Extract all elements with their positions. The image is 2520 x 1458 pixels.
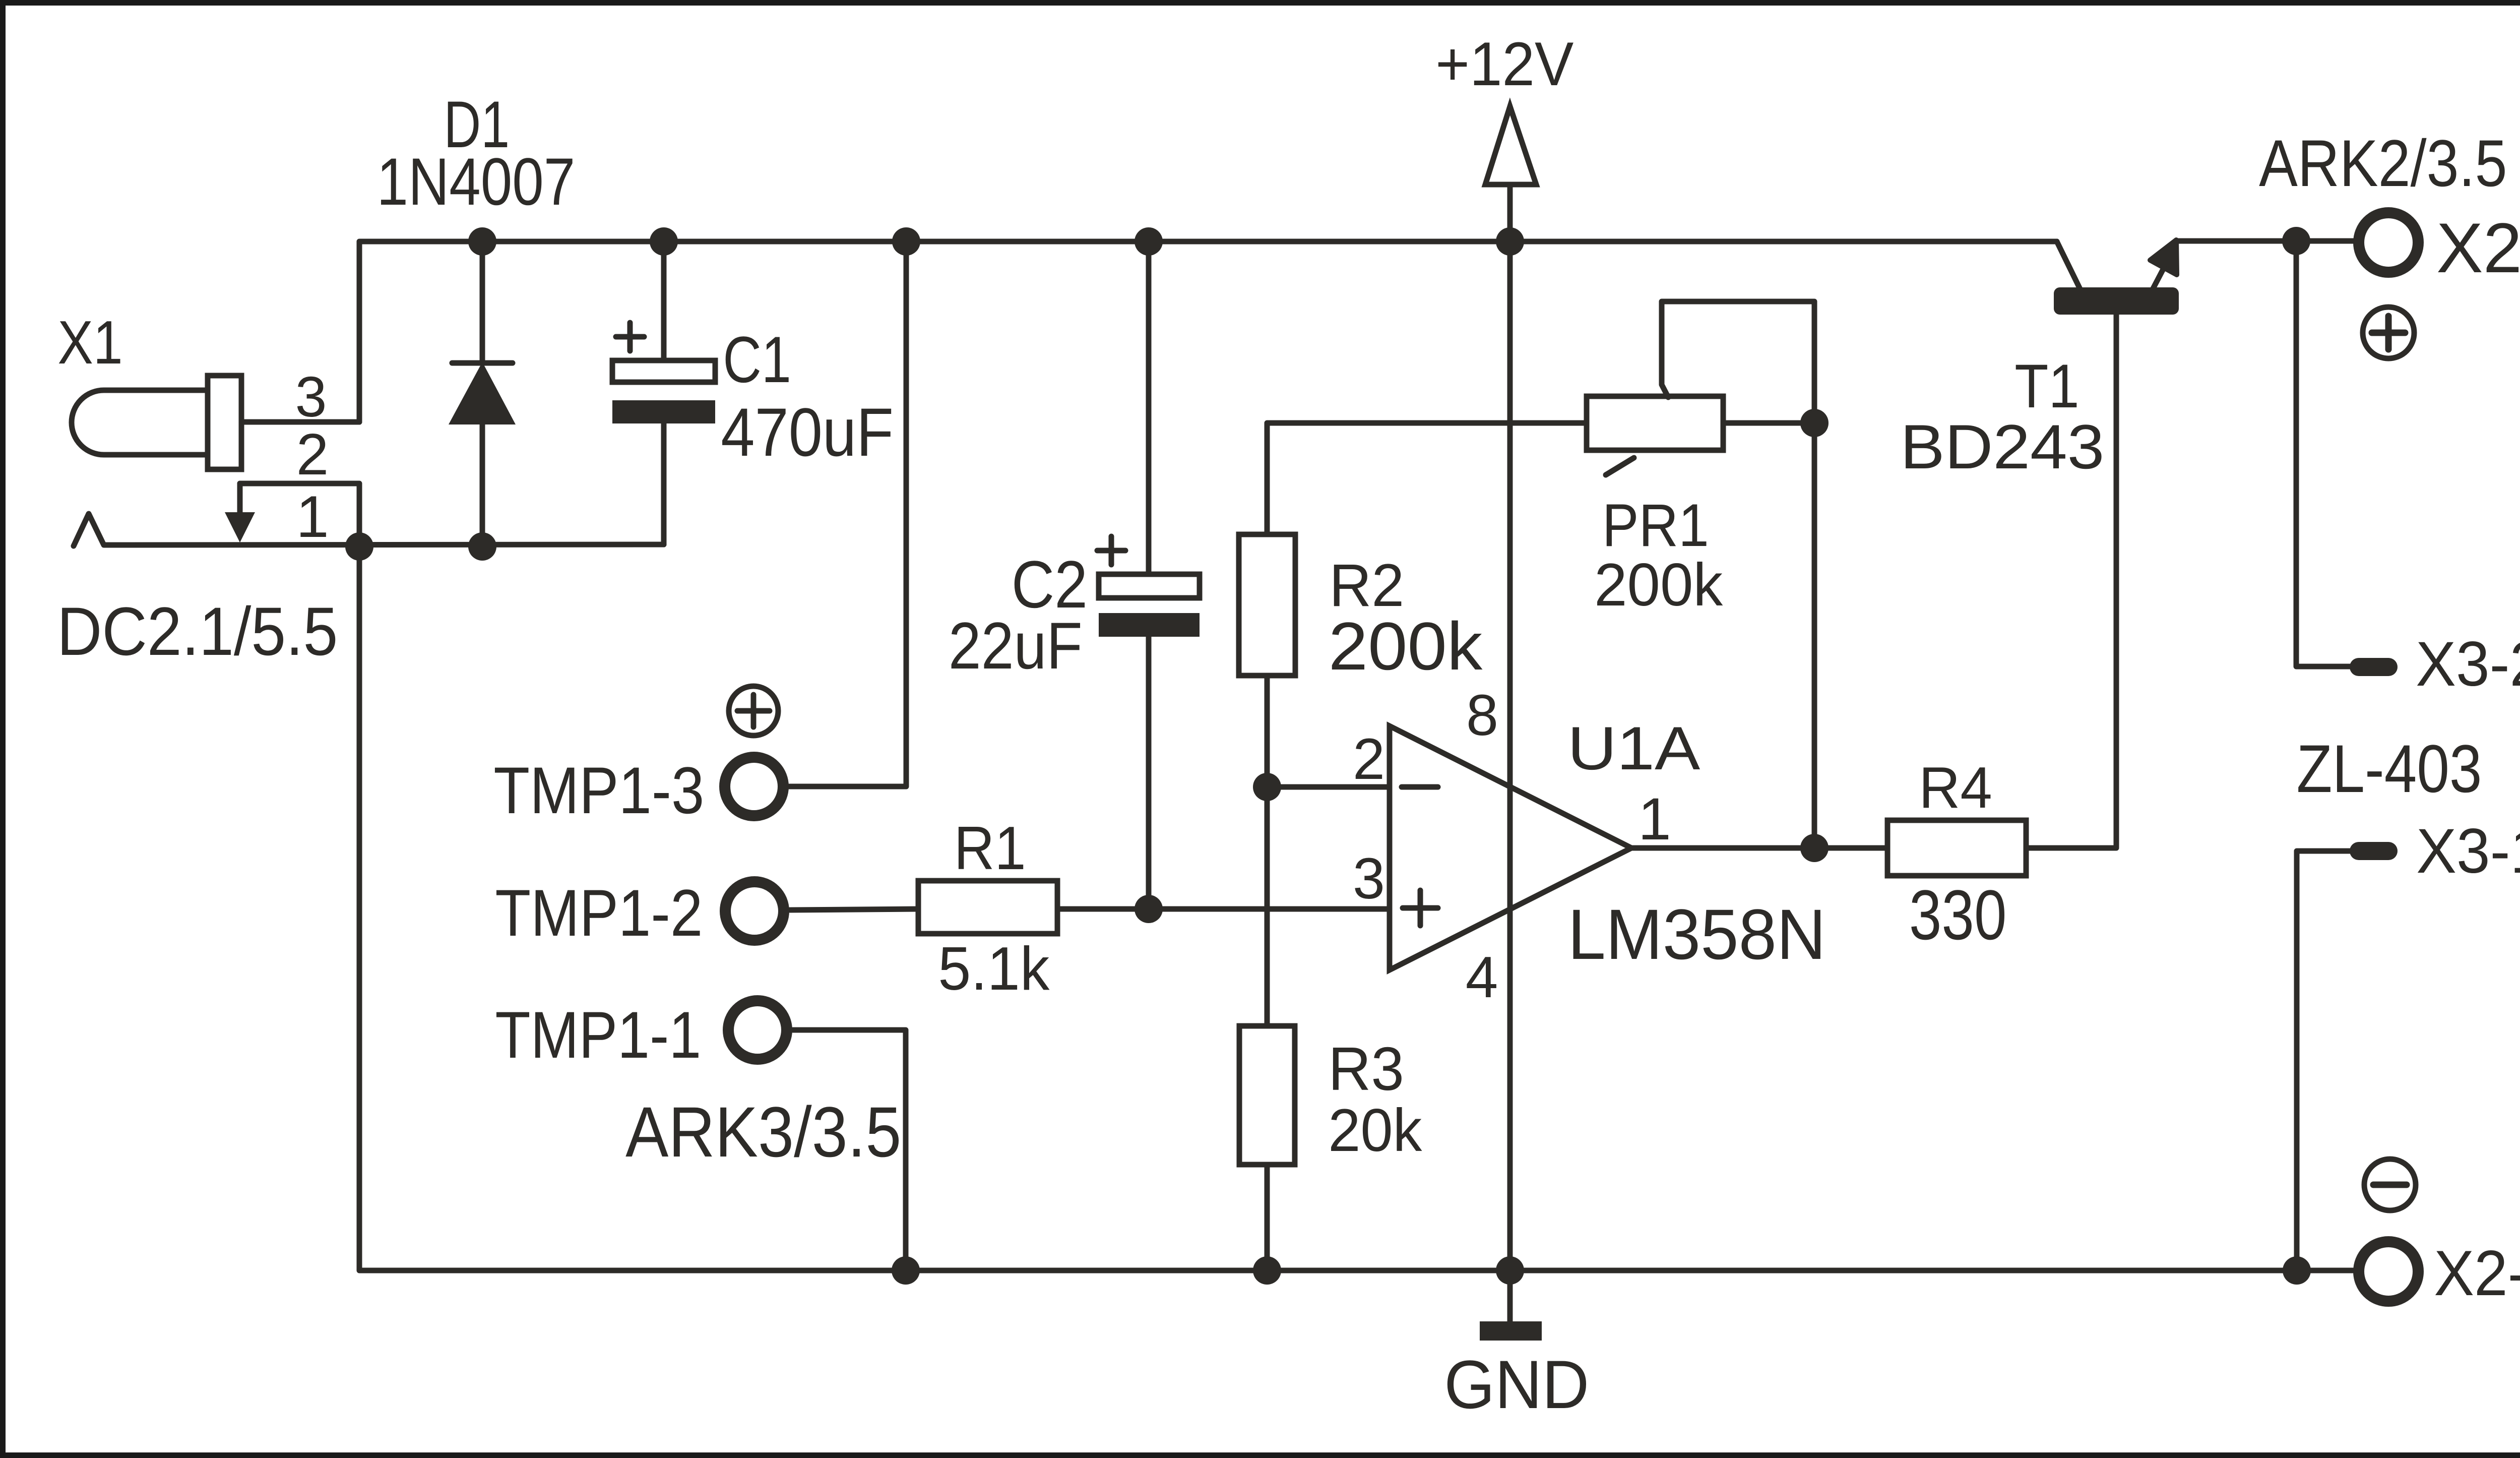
ground GND bar	[1480, 1321, 1542, 1341]
TMP1-3 pad ring	[725, 757, 783, 816]
TMP1-3 pad plus symbol	[729, 686, 778, 736]
X3-1 pad pill	[2350, 842, 2398, 860]
C1 plus sign	[616, 323, 644, 351]
X1 switch arrow wire	[237, 483, 243, 515]
wire TMP1-3 to top rail	[789, 241, 906, 786]
D1 anode wire	[480, 424, 485, 546]
svg-text:TMP1-1: TMP1-1	[495, 998, 701, 1072]
wire X1 pin 2	[240, 483, 359, 546]
node junction C2 top	[1135, 227, 1163, 256]
node junction TMP1-3 top	[892, 227, 920, 256]
T1 base bar	[2054, 287, 2179, 315]
svg-text:GND: GND	[1444, 1346, 1589, 1423]
resistor R2 top wire	[1267, 423, 1587, 534]
wire emitter to X2-1	[2178, 238, 2359, 244]
T1 emitter lead	[2153, 268, 2164, 289]
terminal X2-2 ring	[2359, 1242, 2418, 1301]
X3-2 pad pill	[2350, 658, 2398, 676]
capacitor C2 top wire	[1146, 241, 1152, 575]
wire TMP1-1 to ground rail	[793, 1030, 906, 1270]
svg-text:200k: 200k	[1329, 609, 1483, 684]
minus circle marker	[2364, 1159, 2416, 1210]
node junction C1 top	[650, 227, 678, 256]
PR1 trimmer tick	[1606, 458, 1634, 475]
node junction X3-1 ground	[2283, 1256, 2311, 1285]
wire +12V vertical	[1507, 241, 1513, 1270]
D1 triangle	[449, 362, 516, 424]
svg-text:470uF: 470uF	[721, 394, 894, 470]
plus circle marker	[2363, 307, 2414, 358]
wire X1 pin1 bottom with break caret	[74, 514, 664, 546]
trimmer PR1 body	[1587, 396, 1723, 450]
node junction output	[1800, 834, 1829, 862]
node junction TMP1-1 ground	[892, 1256, 920, 1285]
PR1 right wire	[1723, 420, 1814, 426]
C2 plus sign	[1097, 536, 1125, 565]
capacitor C1 top wire	[661, 241, 667, 360]
T1 emitter arrow head	[2150, 240, 2177, 275]
connector X1 plate	[208, 376, 241, 469]
svg-text:X3-1: X3-1	[2416, 815, 2520, 886]
svg-text:T1: T1	[2014, 352, 2079, 421]
wire R1 to op-amp plus input	[1057, 906, 1390, 912]
svg-text:X2-2: X2-2	[2434, 1237, 2520, 1309]
U1 plus marker	[1403, 890, 1438, 926]
ground GND stub	[1507, 1270, 1513, 1323]
wire X3-2 branch	[2296, 241, 2351, 666]
node junction minus input	[1253, 773, 1281, 801]
node junction GND	[1496, 1256, 1524, 1285]
PR1 wiper loop	[1662, 301, 1814, 423]
svg-text:330: 330	[1909, 875, 2007, 954]
resistor R2	[1239, 534, 1295, 676]
wire top +12V rail	[359, 241, 2057, 422]
+12V supply arrow	[1485, 106, 1536, 185]
svg-text:BD243: BD243	[1900, 412, 2104, 482]
svg-text:X1: X1	[57, 308, 122, 377]
svg-text:TMP1-3: TMP1-3	[493, 753, 704, 827]
wire X1 pin 3	[241, 419, 359, 425]
X1 switch arrow head	[225, 512, 255, 542]
R2 bottom wire	[1265, 676, 1270, 787]
svg-text:ARK3/3.5: ARK3/3.5	[625, 1092, 901, 1172]
svg-text:ZL-403: ZL-403	[2297, 731, 2482, 807]
wire op-amp output	[1631, 845, 1887, 851]
svg-text:R1: R1	[954, 814, 1026, 882]
svg-text:R4: R4	[1919, 755, 1992, 820]
svg-text:22uF: 22uF	[949, 609, 1083, 683]
wire R4 to T1 base	[2026, 315, 2116, 848]
svg-text:DC2.1/5.5: DC2.1/5.5	[57, 593, 338, 670]
op-amp U1 triangle	[1390, 726, 1631, 970]
svg-text:X2-1: X2-1	[2436, 208, 2520, 287]
svg-text:3: 3	[295, 365, 327, 429]
diode D1 cathode wire	[480, 241, 485, 361]
svg-text:8: 8	[1466, 683, 1498, 748]
node junction D1 anode	[468, 532, 496, 561]
C2 top plate	[1099, 574, 1200, 598]
resistor R1	[918, 881, 1057, 934]
C2 bottom plate	[1099, 613, 1200, 637]
wire R2/R3 divider	[1265, 787, 1270, 1026]
+12V stub	[1507, 185, 1513, 241]
node junction R3 ground	[1253, 1256, 1281, 1285]
svg-text:1: 1	[1638, 786, 1671, 853]
wire ground rail	[359, 546, 2353, 1270]
svg-text:5.1k: 5.1k	[938, 934, 1049, 1003]
wire feedback vertical	[1812, 423, 1817, 848]
node junction PR1 right	[1800, 409, 1829, 437]
TMP1-2 pad ring	[725, 882, 784, 940]
svg-text:1N4007: 1N4007	[377, 145, 576, 219]
transistor T1 collector lead	[2057, 241, 2081, 290]
wire X3-1 branch	[2297, 851, 2351, 1270]
wire minus input	[1267, 784, 1390, 790]
R3 bottom wire	[1265, 1165, 1270, 1270]
connector X1 barrel	[72, 390, 209, 455]
svg-text:C1: C1	[723, 323, 791, 396]
svg-text:ARK2/3.5: ARK2/3.5	[2259, 126, 2507, 200]
svg-text:4: 4	[1466, 944, 1498, 1010]
C2 bottom wire	[1146, 637, 1152, 909]
svg-text:X3-2: X3-2	[2416, 628, 2520, 699]
svg-text:1: 1	[296, 483, 329, 550]
node junction +12V rail	[1496, 227, 1524, 256]
svg-text:U1A: U1A	[1567, 714, 1700, 782]
C1 bottom plate	[612, 400, 715, 423]
svg-text:R3: R3	[1328, 1035, 1404, 1103]
svg-text:200k: 200k	[1594, 551, 1723, 619]
D1 cathode bar	[452, 360, 513, 366]
resistor R3	[1239, 1026, 1295, 1165]
svg-text:2: 2	[296, 421, 329, 487]
svg-text:20k: 20k	[1328, 1097, 1422, 1164]
node junction X1 pin2	[345, 532, 373, 561]
svg-text:2: 2	[1353, 727, 1385, 792]
TMP1-1 pad ring	[728, 1001, 787, 1059]
C1 top plate	[612, 360, 715, 382]
terminal X2-1 ring	[2359, 213, 2418, 272]
wire TMP1-2 to R1	[790, 909, 918, 910]
node junction D1 top	[468, 227, 496, 256]
svg-text:+12V: +12V	[1435, 30, 1573, 99]
C1 bottom wire	[661, 423, 667, 544]
node junction R1/C2/plus-input	[1135, 895, 1163, 923]
svg-text:3: 3	[1353, 846, 1385, 911]
svg-text:LM358N: LM358N	[1568, 894, 1826, 974]
svg-text:TMP1-2: TMP1-2	[495, 876, 703, 950]
svg-text:PR1: PR1	[1602, 492, 1709, 559]
U1 minus marker	[1402, 784, 1438, 790]
resistor R4	[1887, 820, 2026, 876]
node junction X3-2 branch	[2282, 227, 2310, 255]
